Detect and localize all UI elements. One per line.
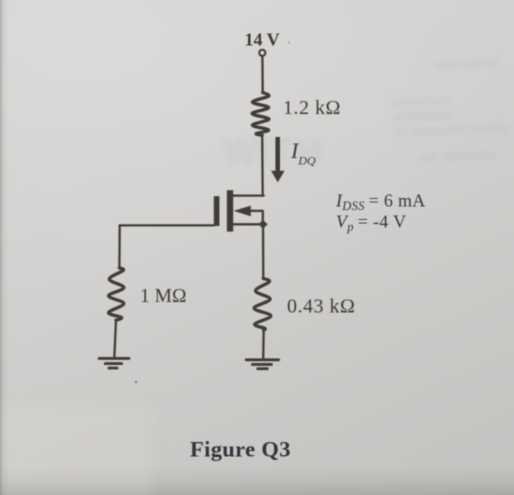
ground (left) (99, 358, 129, 368)
wire supply to R1 (261, 56, 264, 92)
svg-text:1 MΩ: 1 MΩ (140, 286, 186, 307)
svg-text:IDSS = 6 mA: IDSS = 6 mA (335, 191, 426, 214)
source wire (232, 223, 266, 225)
resistor R3 (0.43 kOhm) (254, 278, 271, 330)
body connection with arrow (249, 211, 263, 222)
wire R3 to ground (262, 330, 265, 358)
wire source junction down to R3 (262, 224, 265, 278)
svg-text:0.43 kΩ: 0.43 kΩ (287, 296, 355, 318)
svg-text:14 V: 14 V (245, 30, 280, 50)
wire left branch down to R2 (118, 225, 121, 268)
wire gate to left branch (120, 224, 214, 226)
faint bleed-through text from reverse page (decorative) (0, 405, 152, 495)
channel bar (227, 190, 233, 231)
transistor M1 (n-channel depletion MOSFET) (214, 190, 267, 231)
svg-text:Vp = -4 V: Vp = -4 V (336, 212, 406, 235)
wire R2 to ground (114, 320, 116, 356)
drain wire (232, 194, 264, 196)
stray ink speck (135, 381, 137, 383)
svg-text:IDQ: IDQ (290, 138, 316, 168)
wire R1 to drain junction (261, 135, 264, 195)
gate bar (214, 196, 220, 226)
junction dot (source/body tie) (260, 221, 267, 228)
svg-text:1.2 kΩ: 1.2 kΩ (283, 97, 341, 119)
ground (right) (246, 360, 278, 369)
supply terminal (259, 50, 265, 56)
stray faint dot near 14 V (288, 41, 290, 43)
resistor R1 (1.2 kOhm) (252, 93, 269, 136)
annotation IDSS / VP (335, 191, 426, 235)
current arrow IDQ (271, 137, 285, 182)
svg-text:Figure Q3: Figure Q3 (190, 437, 291, 462)
resistor R2 (1 MOhm) (109, 268, 124, 320)
